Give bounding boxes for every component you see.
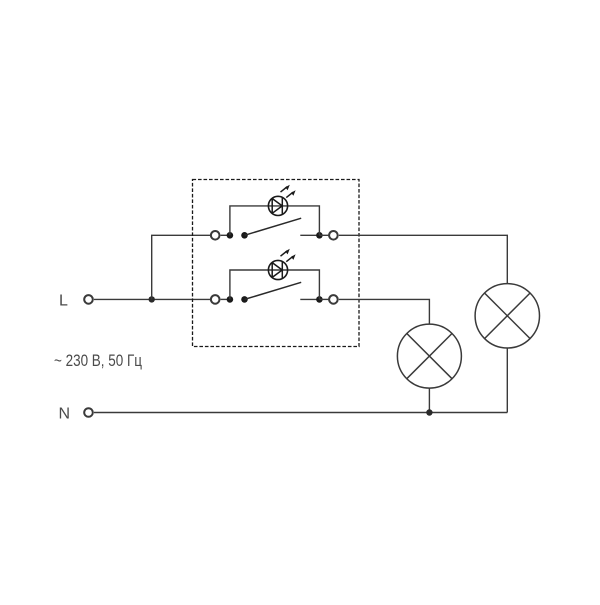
switch blade gang2 <box>245 282 302 299</box>
LED bypass wire gang2 <box>230 270 320 299</box>
svg-text:N: N <box>59 405 71 422</box>
wire lamp 2 to N line <box>506 348 508 413</box>
terminal gang1 output <box>329 231 338 240</box>
lamp 2 (right) <box>475 284 539 348</box>
svg-text:L: L <box>59 293 68 310</box>
junction lamp1 on N line <box>426 409 432 415</box>
wire to terminal gang1 output <box>319 234 329 236</box>
contact dot gang2 A <box>227 296 234 303</box>
fixed contact line gang2 <box>300 298 319 300</box>
wire gang1 input to contact <box>221 234 230 236</box>
dashed switch enclosure <box>193 180 360 347</box>
terminal L <box>84 295 93 304</box>
fixed contact line gang1 <box>300 234 319 236</box>
LED indicator gang1 <box>268 185 295 216</box>
LED bypass wire gang1 <box>230 206 320 235</box>
svg-text:~ 230 В, 50 Гц: ~ 230 В, 50 Гц <box>54 352 142 370</box>
junction on L line <box>149 296 155 302</box>
contact dot gang1 B (pivot) <box>241 232 248 239</box>
contact dot gang1 C <box>316 232 323 239</box>
terminal gang2 output <box>329 295 338 304</box>
lamp 1 (left) <box>397 324 461 388</box>
LED indicator gang2 <box>268 249 295 280</box>
wire lamp 1 to N line <box>428 388 430 412</box>
switch blade gang1 <box>245 218 302 235</box>
contact dot gang2 B (pivot) <box>241 296 248 303</box>
terminal N <box>84 408 93 417</box>
wire gang2 input to contact <box>221 298 230 300</box>
wire gang2 output to lamp 1 <box>339 299 430 324</box>
wire gang1 output to lamp 2 <box>339 235 508 283</box>
terminal gang1 input <box>211 231 220 240</box>
wire L to switch gang 2 input <box>94 298 210 300</box>
wire to terminal gang2 output <box>319 298 329 300</box>
terminal gang2 input <box>211 295 220 304</box>
contact dot gang2 C <box>316 296 323 303</box>
wire N line <box>94 412 507 414</box>
wire branch from L junction to switch gang 1 input <box>152 235 211 299</box>
contact dot gang1 A <box>227 232 234 239</box>
